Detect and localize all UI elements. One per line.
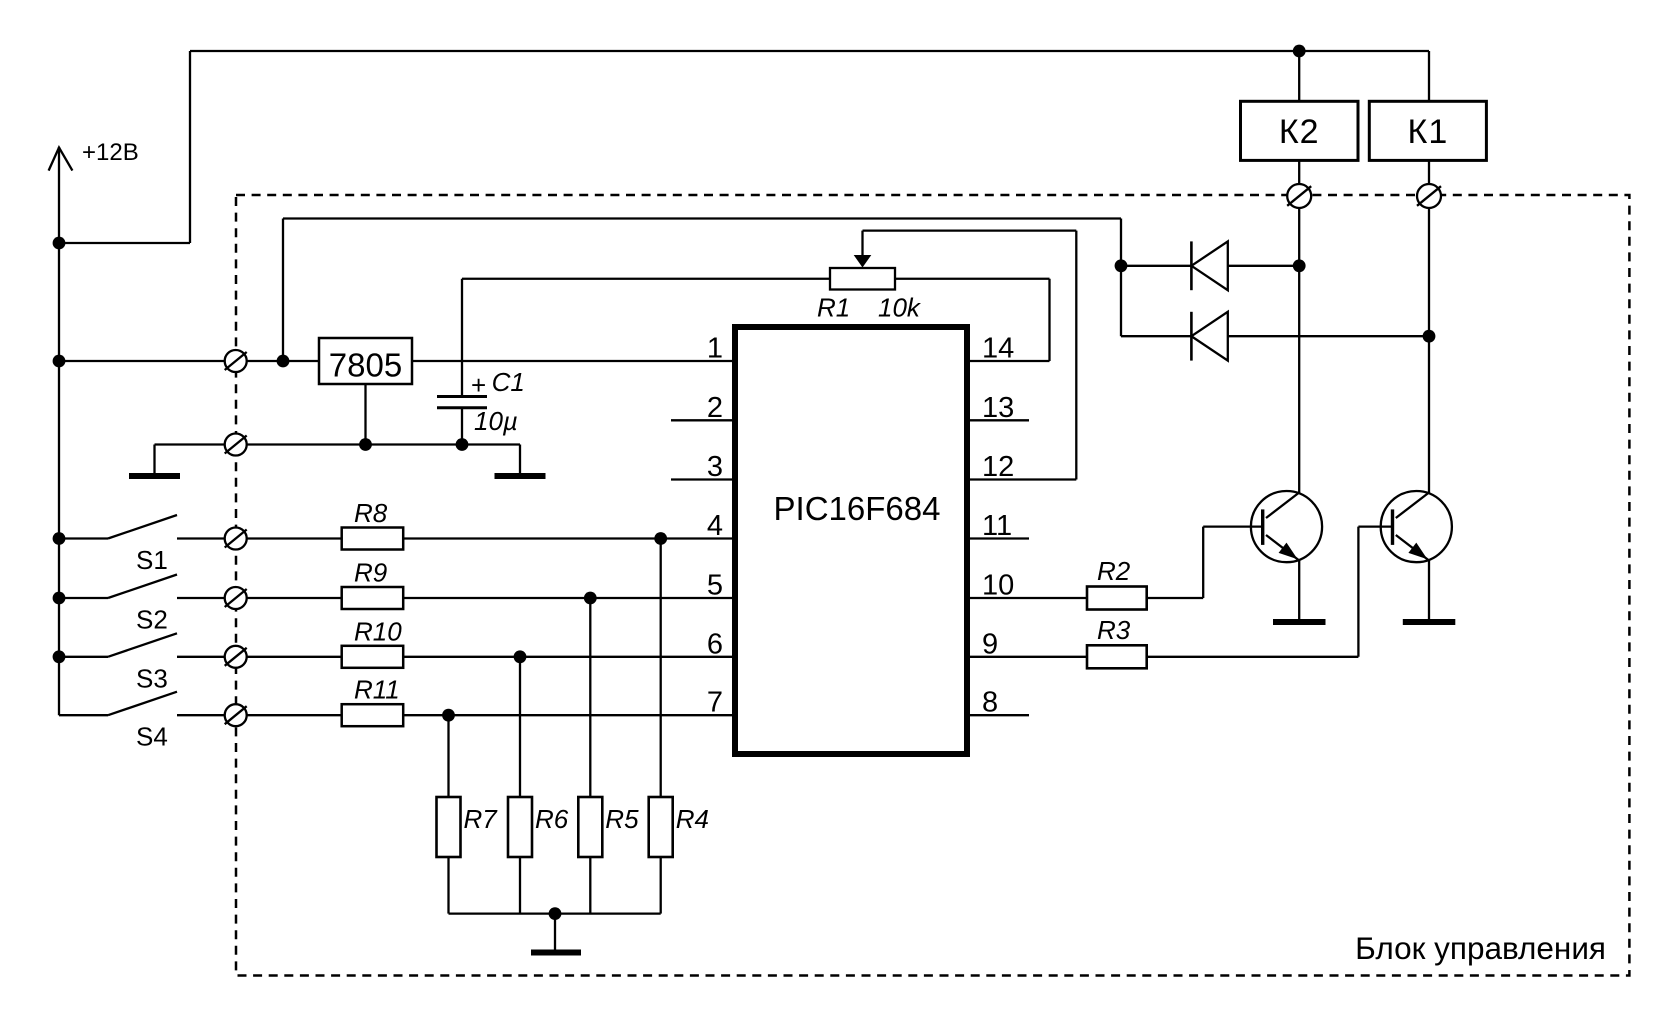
svg-text:R4: R4 [676, 804, 709, 834]
svg-text:11: 11 [982, 510, 1012, 542]
svg-text:13: 13 [982, 392, 1014, 424]
svg-text:R9: R9 [354, 558, 387, 588]
svg-text:8: 8 [982, 687, 998, 719]
svg-text:R10: R10 [354, 616, 402, 646]
svg-text:S3: S3 [136, 663, 168, 693]
svg-text:10µ: 10µ [474, 406, 518, 436]
svg-text:R1: R1 [817, 293, 850, 323]
svg-text:5: 5 [707, 570, 723, 602]
svg-text:К2: К2 [1279, 113, 1320, 151]
svg-text:R5: R5 [605, 804, 639, 834]
svg-text:2: 2 [707, 392, 723, 424]
svg-text:К1: К1 [1408, 113, 1449, 151]
svg-text:10k: 10k [878, 293, 922, 323]
svg-text:3: 3 [707, 451, 723, 483]
svg-text:R2: R2 [1097, 556, 1131, 586]
svg-text:R7: R7 [464, 804, 499, 834]
svg-text:9: 9 [982, 628, 998, 660]
svg-text:PIC16F684: PIC16F684 [774, 490, 941, 527]
svg-text:12: 12 [982, 451, 1014, 483]
svg-text:S1: S1 [136, 545, 168, 575]
svg-text:Блок управления: Блок управления [1355, 930, 1606, 966]
svg-text:1: 1 [707, 333, 723, 365]
svg-text:R8: R8 [354, 498, 388, 528]
svg-text:7: 7 [707, 687, 723, 719]
svg-text:14: 14 [982, 333, 1014, 365]
svg-text:S4: S4 [136, 722, 168, 752]
svg-text:C1: C1 [492, 367, 525, 397]
svg-text:+12В: +12В [82, 139, 139, 166]
svg-text:R6: R6 [535, 804, 569, 834]
svg-text:R11: R11 [354, 675, 400, 705]
svg-text:4: 4 [707, 510, 723, 542]
svg-text:R3: R3 [1097, 615, 1131, 645]
svg-text:+: + [471, 370, 486, 400]
svg-text:10: 10 [982, 570, 1014, 602]
svg-text:7805: 7805 [329, 347, 402, 384]
svg-text:6: 6 [707, 628, 723, 660]
svg-text:S2: S2 [136, 605, 168, 635]
